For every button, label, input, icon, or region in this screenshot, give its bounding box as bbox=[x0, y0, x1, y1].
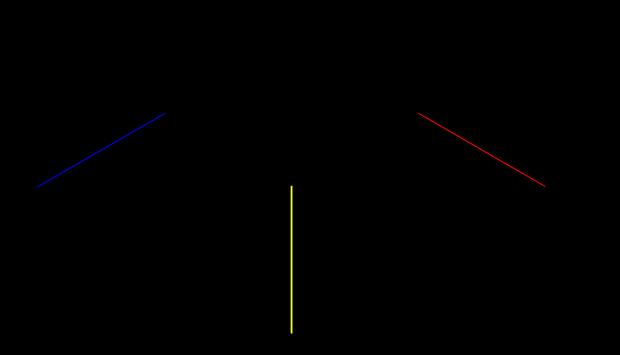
yellow ray bbox=[291, 186, 293, 334]
blue ray bbox=[38, 113, 166, 187]
red ray bbox=[418, 113, 545, 187]
